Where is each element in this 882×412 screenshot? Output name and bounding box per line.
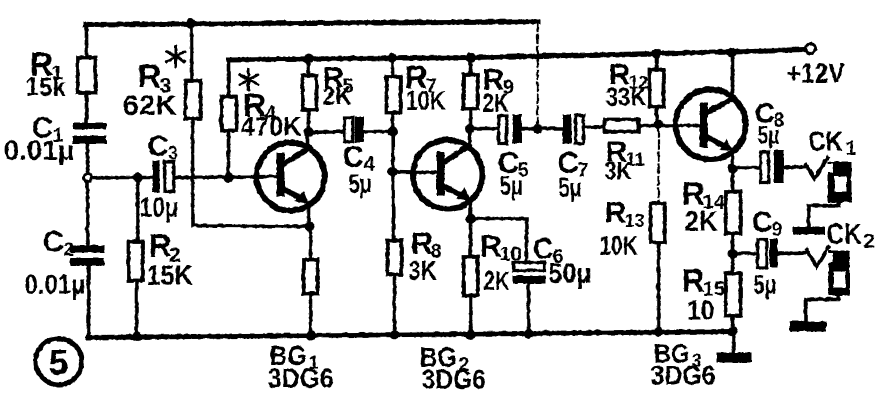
svg-text:15k: 15k	[25, 71, 65, 101]
svg-text:9: 9	[771, 219, 782, 240]
wire R5 bottom lead	[306, 109, 310, 132]
svg-text:5μ: 5μ	[753, 269, 776, 299]
wire R8 bottom lead	[392, 274, 396, 334]
wire R2 branch	[135, 177, 139, 241]
resistor R12	[649, 69, 663, 106]
svg-text:2: 2	[63, 239, 74, 260]
wire R9 bottom lead	[468, 108, 472, 128]
resistor R10	[463, 256, 477, 295]
label asterisk R3	[166, 46, 184, 66]
ground main	[716, 352, 751, 362]
svg-text:15K: 15K	[146, 259, 192, 290]
svg-text:10: 10	[686, 294, 714, 325]
capacitor C3	[152, 160, 159, 192]
wire C1 to input node	[85, 143, 89, 173]
wire R12 bottom lead	[656, 106, 657, 124]
wire C3 to BG1 base	[174, 176, 280, 177]
svg-text:5μ: 5μ	[558, 172, 581, 202]
wire BG3 emitter	[730, 150, 734, 168]
resistor R5	[302, 75, 316, 109]
capacitor C9	[757, 239, 766, 267]
node BG2 base junction	[387, 166, 397, 176]
wire BG2 collector to C5	[470, 126, 498, 130]
jack CK1 body	[827, 161, 851, 202]
node R10 ground	[465, 329, 475, 339]
svg-text:5: 5	[48, 341, 68, 382]
svg-text:C: C	[147, 130, 168, 162]
node R7 top	[387, 52, 397, 62]
wire R13 bottom lead	[656, 242, 660, 331]
resistor R11	[604, 119, 638, 131]
resistor R2	[128, 241, 142, 280]
svg-text:5μ: 5μ	[757, 121, 779, 149]
wire R6 top lead	[308, 226, 312, 259]
resistor R8	[387, 240, 401, 274]
wire R2 to ground rail	[134, 280, 138, 336]
wire C6 bottom lead	[526, 283, 530, 333]
wire emitter bracket to C6	[470, 218, 526, 262]
resistor R13	[650, 203, 664, 242]
svg-text:5μ: 5μ	[348, 168, 371, 198]
node C6 ground	[523, 328, 533, 338]
svg-text:2: 2	[863, 230, 874, 252]
wire R14 top lead	[730, 168, 734, 191]
svg-text:2K: 2K	[322, 80, 351, 110]
svg-text:3K: 3K	[408, 255, 436, 285]
wire R7/R8 chain	[392, 112, 393, 240]
svg-text:C: C	[42, 225, 64, 258]
resistor R6	[303, 259, 317, 293]
wire input node to C2	[85, 181, 89, 246]
transistor Q1 BG1	[256, 142, 324, 210]
wire BG3 collector	[730, 52, 734, 99]
svg-text:3: 3	[167, 143, 178, 164]
node R3 top	[185, 18, 195, 28]
node BG1 emitter	[304, 221, 314, 231]
node R2 ground	[131, 331, 141, 341]
node R13 ground	[653, 326, 663, 336]
svg-text:CK: CK	[826, 218, 861, 250]
wire CK2 ground lead	[805, 295, 838, 321]
svg-text:+12V: +12V	[786, 57, 844, 88]
capacitor C8	[760, 151, 768, 182]
wire BG1 emitter	[306, 202, 310, 226]
wire ground stem	[731, 331, 735, 352]
svg-text:2K: 2K	[483, 265, 509, 295]
wire C9 to CK2	[777, 252, 808, 253]
capacitor C6	[513, 262, 544, 270]
node BG3 base junction	[653, 119, 663, 129]
wire R14 to R15	[730, 233, 734, 273]
svg-text:2K: 2K	[684, 205, 717, 236]
wire emitter to C8	[732, 165, 760, 169]
svg-text:R: R	[148, 227, 171, 263]
svg-text:62K: 62K	[122, 89, 176, 120]
wire C9 branch	[732, 251, 757, 255]
ground CK1	[792, 226, 824, 234]
resistor R1	[77, 57, 95, 92]
label figure number 5	[35, 338, 81, 384]
wire BG2 emitter	[468, 199, 472, 218]
node R12 top	[651, 48, 661, 58]
jack CK1 contact	[805, 157, 827, 178]
wire R15 bottom lead	[730, 315, 734, 331]
svg-text:33K: 33K	[605, 81, 646, 111]
wire R11 to BG3 base	[638, 123, 703, 127]
wire bottom ground rail	[88, 331, 733, 337]
wire BG1 collector to C4	[308, 131, 344, 132]
node ground rail end	[727, 326, 737, 336]
jack CK2 body	[828, 250, 849, 295]
resistor R4	[221, 96, 236, 130]
node R8 ground	[389, 329, 399, 339]
wire R4 top lead	[226, 59, 230, 96]
wire R3 top lead	[189, 23, 193, 80]
resistor R15	[725, 273, 740, 315]
svg-text:R: R	[604, 196, 626, 229]
wire feedback drop to C5/C7 node	[536, 22, 538, 128]
wire R9 top lead	[468, 57, 472, 74]
svg-text:CK: CK	[808, 125, 842, 156]
wire R10 top lead	[468, 218, 472, 256]
svg-text:10: 10	[499, 243, 521, 265]
transistor Q2 BG2	[413, 140, 482, 209]
svg-text:10K: 10K	[405, 85, 445, 115]
resistor R14	[725, 191, 740, 233]
capacitor C5	[498, 115, 506, 143]
wire R3 to BG1 emitter	[192, 118, 310, 226]
wire CK1 ground lead	[808, 202, 838, 226]
wire R13 top lead	[657, 128, 659, 203]
wire C5 to C7	[521, 126, 562, 130]
svg-text:0.01μ: 0.01μ	[24, 268, 85, 299]
resistor R3	[185, 80, 200, 118]
node BG2 collector	[464, 123, 474, 133]
wire C2 to ground rail	[86, 265, 90, 337]
capacitor C1	[72, 122, 106, 129]
svg-text:3DG6: 3DG6	[650, 359, 715, 390]
wire left column top	[84, 23, 88, 58]
resistor R9	[463, 74, 477, 108]
wire R7 top lead	[390, 57, 394, 76]
wire R5 top lead	[306, 58, 310, 75]
jack CK2 contact	[806, 246, 828, 266]
node BG1 collector	[303, 127, 313, 137]
wire BG2 base	[392, 171, 440, 172]
svg-text:1: 1	[845, 138, 856, 159]
capacitor C7	[562, 114, 571, 143]
node BG3 emitter	[727, 163, 737, 173]
svg-text:13: 13	[624, 210, 644, 230]
wire R10 bottom lead	[468, 295, 472, 334]
wire BG2 collector	[467, 128, 471, 145]
svg-text:5μ: 5μ	[499, 170, 522, 200]
node R6 ground	[305, 330, 315, 340]
node BG3 collector rail	[726, 47, 736, 57]
node BG2 emitter	[465, 213, 475, 223]
label asterisk R4	[239, 69, 257, 89]
wire C7 to R11	[583, 126, 604, 127]
svg-text:3DG6: 3DG6	[267, 362, 333, 393]
wire input node to C3	[91, 175, 152, 179]
wire R1 to C1	[84, 92, 88, 123]
svg-text:10K: 10K	[599, 230, 637, 260]
transistor Q3 BG3	[675, 89, 745, 159]
svg-text:10μ: 10μ	[139, 191, 178, 222]
node R5 top	[303, 53, 313, 63]
wire BG1 collector	[305, 132, 309, 148]
node input terminal	[83, 173, 91, 181]
capacitor C2	[70, 245, 104, 252]
ground CK2	[789, 321, 826, 331]
node R2 junction	[132, 172, 142, 182]
svg-text:0.01μ: 0.01μ	[3, 134, 74, 165]
wire C8 to CK1	[783, 166, 806, 167]
node C9 junction	[727, 248, 737, 258]
capacitor C4	[344, 117, 352, 141]
node supply terminal +12V	[805, 43, 815, 53]
svg-text:3K: 3K	[604, 157, 631, 185]
node R9 top	[465, 52, 475, 62]
svg-text:2K: 2K	[482, 87, 508, 117]
svg-text:50μ: 50μ	[548, 257, 591, 288]
wire C4 to BG2 base node	[363, 129, 392, 133]
node feedback junction	[532, 123, 542, 133]
wire top feedback rail	[85, 21, 537, 24]
wire R6 bottom lead	[308, 293, 312, 335]
node R4 to base junction	[223, 172, 233, 182]
wire +12V supply rail	[228, 49, 806, 59]
svg-text:470K: 470K	[240, 111, 301, 141]
wire R4 bottom lead	[226, 130, 230, 177]
svg-text:3DG6: 3DG6	[421, 363, 485, 394]
resistor R7	[386, 76, 400, 112]
node C4/R7 junction	[387, 126, 397, 136]
svg-text:R: R	[681, 262, 704, 298]
wire R12 top lead	[654, 53, 658, 69]
svg-text:C: C	[751, 206, 772, 238]
